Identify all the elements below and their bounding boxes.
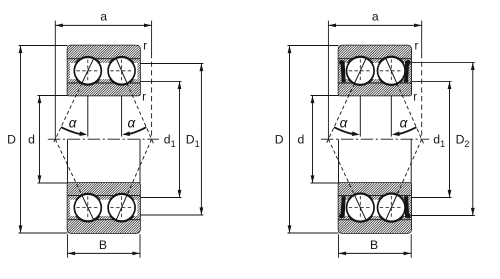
ball crosshair [380, 70, 403, 72]
leader lines for D2 [411, 61, 475, 63]
pressure-centre extension (right) [151, 21, 153, 53]
pressure-centre extension (right) [421, 21, 423, 53]
contact line (lower left ball) [328, 139, 354, 195]
dimension B extension lines [338, 234, 340, 258]
centre axis (dash-dot) [321, 138, 429, 140]
angle alpha arc arrow (right) [397, 127, 416, 134]
ball [108, 57, 135, 84]
angle alpha arc arrow (left) [61, 127, 82, 134]
radial reference line (left) [87, 96, 89, 137]
svg-text:D: D [275, 133, 284, 147]
outer/inner ring hatching [339, 183, 412, 233]
ball [74, 194, 101, 221]
raceway groove [377, 56, 406, 85]
radial reference line (right) [390, 96, 392, 137]
leader lines for D1 [140, 63, 203, 65]
ball [74, 57, 101, 84]
svg-text:r: r [142, 92, 146, 104]
ring split gap [341, 200, 409, 216]
ball crosshair [110, 207, 133, 209]
seal (right face) [404, 196, 409, 217]
outer/inner ring hatching [68, 46, 141, 96]
svg-text:d: d [28, 133, 35, 147]
ring split gap [70, 63, 137, 79]
svg-text:r: r [414, 40, 418, 52]
svg-text:d: d [298, 133, 305, 147]
raceway groove [73, 193, 102, 222]
seal (left face) [341, 196, 346, 217]
leader lines for d1 [140, 80, 182, 82]
contact line (upper right ball) [127, 83, 154, 145]
radial reference line (right) [121, 96, 123, 137]
leader lines for d [38, 95, 68, 97]
raceway groove [346, 193, 375, 222]
svg-text:r: r [143, 40, 147, 52]
leader lines for d [311, 95, 339, 97]
leader lines for D [288, 45, 339, 47]
svg-text:D: D [7, 133, 16, 147]
contact line (upper left ball) [53, 83, 82, 145]
outer/inner ring hatching [68, 183, 141, 233]
ring split gap [341, 63, 409, 79]
ball crosshair [110, 70, 133, 72]
raceway groove [377, 193, 406, 222]
raceway groove [346, 56, 375, 85]
raceway shoulder lines [339, 194, 412, 196]
dimension line d [39, 96, 41, 184]
ball crosshair [349, 70, 372, 72]
angle alpha arc arrow (right) [127, 127, 146, 134]
raceway groove [107, 193, 136, 222]
leader lines for d1 [411, 80, 451, 82]
ball crosshair [349, 207, 372, 209]
dimension a [55, 24, 151, 26]
ball [378, 194, 406, 222]
dimension line d [312, 96, 314, 184]
dimension line D1 [200, 64, 202, 216]
svg-text:r: r [413, 92, 417, 104]
ball crosshair [380, 207, 403, 209]
svg-text:α: α [400, 115, 409, 130]
ball crosshair [77, 70, 100, 72]
leader lines for D [19, 45, 68, 47]
ball [347, 194, 375, 222]
seal (left face) [341, 61, 346, 82]
dimension line D2 [472, 62, 474, 215]
svg-text:B: B [370, 238, 378, 252]
bearing section ring outline [339, 183, 412, 233]
side face projection lines [338, 139, 340, 183]
raceway groove [73, 56, 102, 85]
svg-text:α: α [127, 115, 136, 130]
dimension line D [20, 46, 22, 234]
svg-text:a: a [372, 10, 379, 24]
svg-text:α: α [69, 115, 78, 130]
pressure-centre extension (left, solid) [54, 21, 56, 140]
contact line (upper left ball) [326, 83, 355, 144]
angle alpha arc arrow (left) [334, 127, 355, 134]
dimension line d1 [179, 81, 181, 197]
svg-text:B: B [99, 238, 107, 252]
dimension line d1 [449, 81, 451, 197]
dimension line D [289, 46, 291, 234]
contact line (lower right ball) [127, 139, 152, 195]
contact line (upper right ball) [397, 83, 424, 144]
side face projection lines [67, 139, 69, 183]
ball crosshair [77, 207, 100, 209]
radial reference line (left) [359, 96, 361, 137]
svg-text:a: a [100, 10, 107, 24]
raceway shoulder lines [339, 58, 412, 60]
raceway shoulder lines [68, 194, 141, 196]
dimension B [68, 252, 141, 254]
svg-text:α: α [340, 115, 349, 130]
bearing section ring outline [68, 46, 141, 96]
bearing section ring outline [68, 183, 141, 233]
ring split gap [70, 200, 137, 216]
dimension B extension lines [67, 234, 69, 258]
contact line (lower right ball) [397, 139, 422, 195]
dimension a [328, 24, 421, 26]
ball [347, 57, 375, 85]
bearing section ring outline [339, 46, 412, 96]
outer/inner ring hatching [339, 46, 412, 96]
raceway shoulder lines [68, 58, 141, 60]
dimension B [339, 252, 412, 254]
ball [108, 194, 135, 221]
contact line (lower left ball) [55, 139, 82, 195]
raceway groove [107, 56, 136, 85]
centre axis (dash-dot) [48, 138, 159, 140]
ball [378, 57, 406, 85]
seal (right face) [404, 61, 409, 82]
pressure-centre extension (left, solid) [327, 21, 329, 140]
